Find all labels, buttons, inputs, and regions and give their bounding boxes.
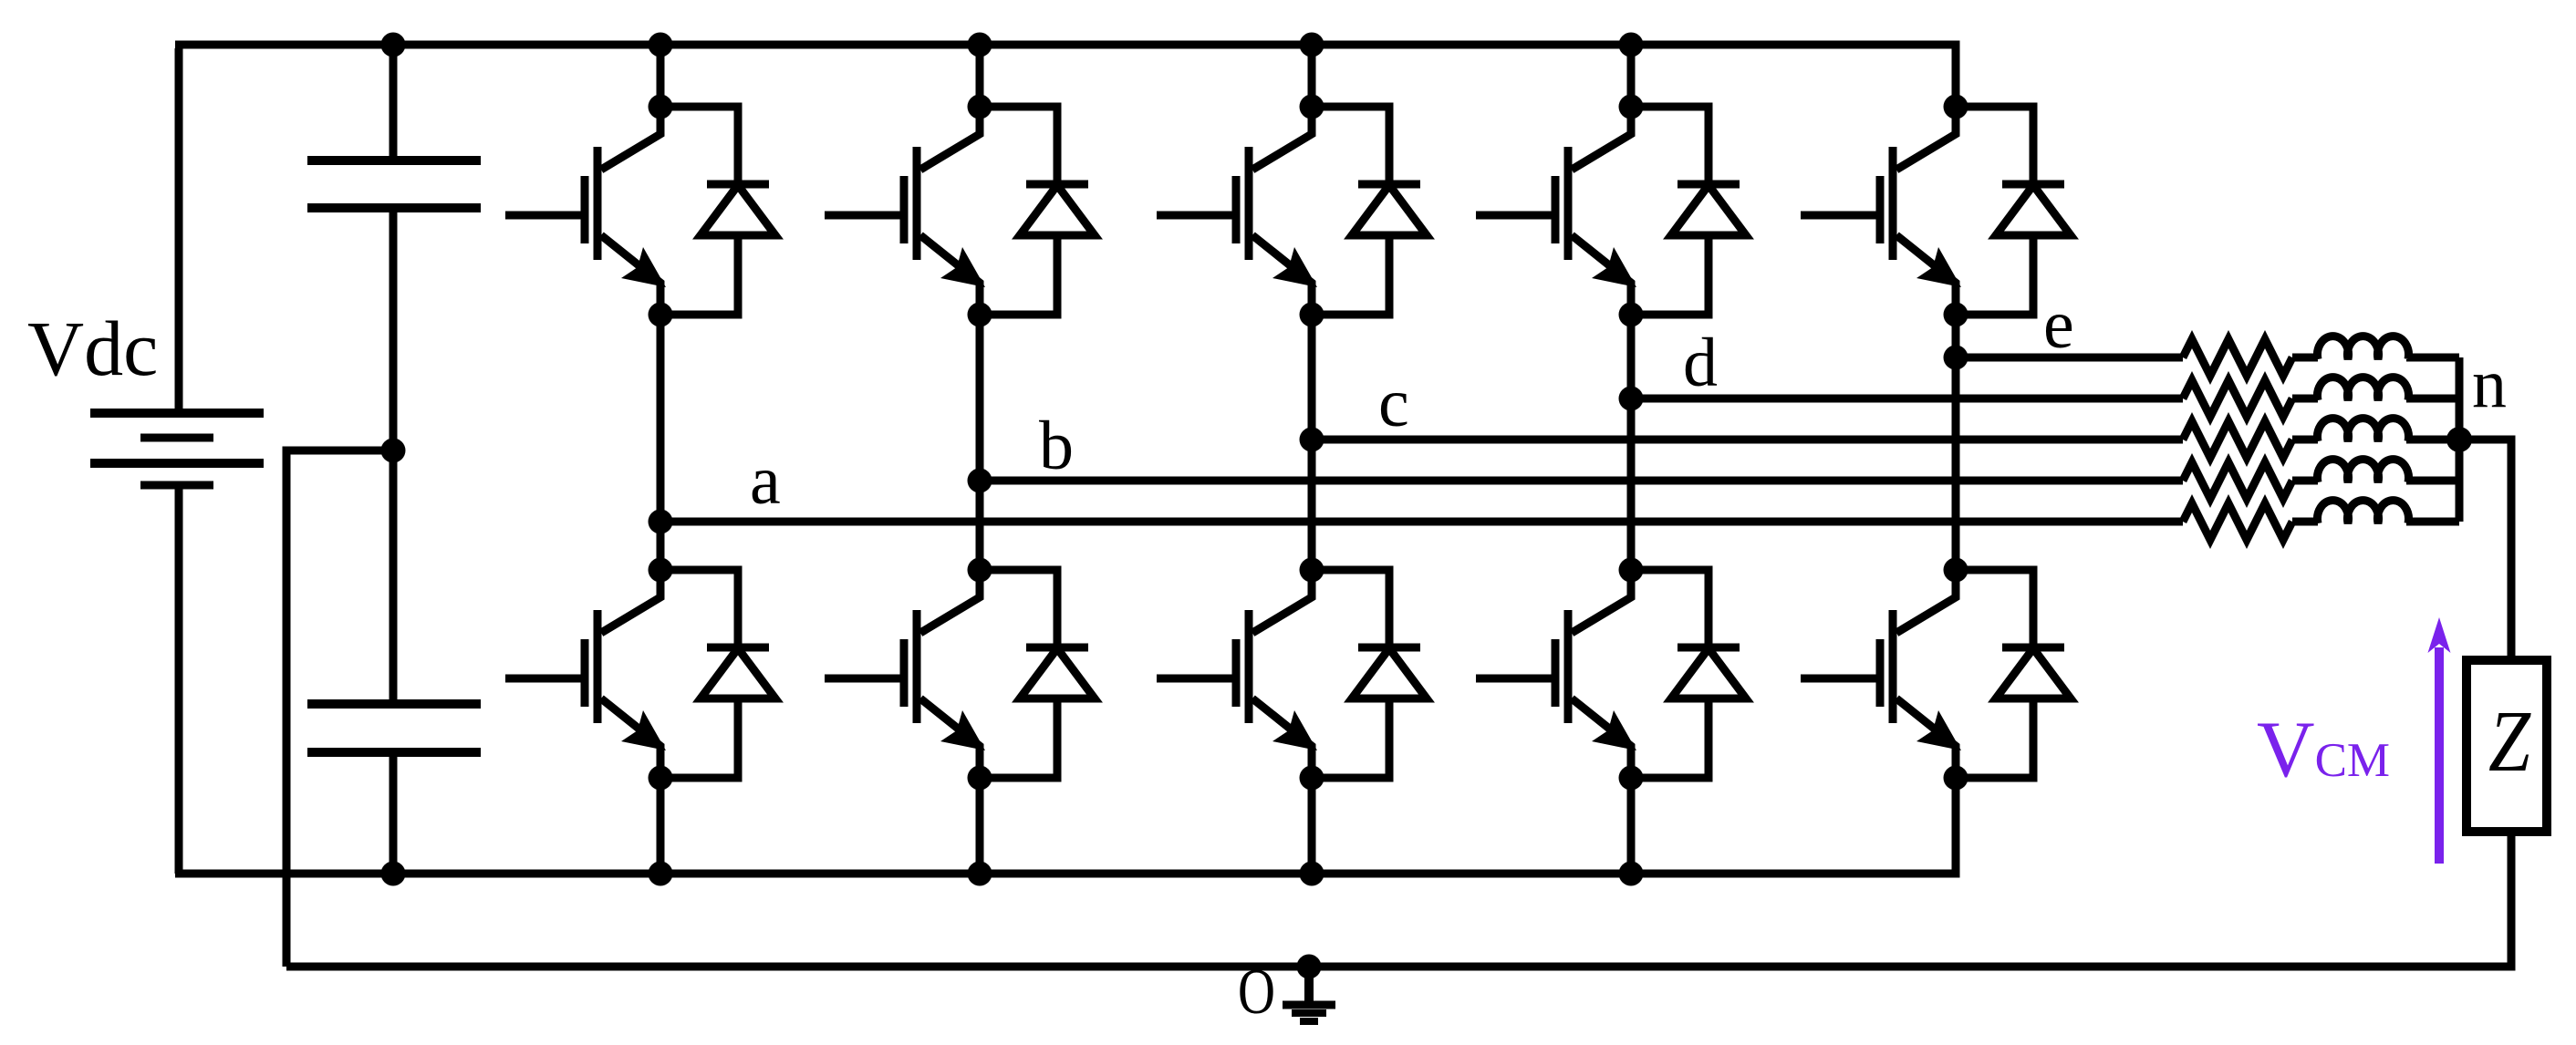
inductor Lb <box>2292 460 2459 482</box>
ground symbol <box>1283 967 1335 1021</box>
IGBT S10 (lower switch, leg e) <box>1801 570 1961 778</box>
junction top rail leg d <box>1619 33 1644 57</box>
node a (phase tap) <box>649 510 673 534</box>
IGBT S5 (upper switch, leg e) <box>1801 107 1961 315</box>
wire C1 to midpoint <box>390 208 398 704</box>
wire top rail to upper switch (leg d) <box>1627 45 1636 107</box>
junction lower switch bottom (leg d) <box>1619 766 1644 791</box>
wire phase b to load <box>980 477 2183 485</box>
free-wheeling diode D10 (lower, leg e) <box>1956 570 2071 778</box>
wire Z to ground bus <box>286 828 2511 967</box>
junction lower switch top (leg c) <box>1300 558 1324 583</box>
IGBT S9 (lower switch, leg d) <box>1476 570 1636 778</box>
free-wheeling diode D4 (upper, leg d) <box>1631 107 1746 315</box>
svg-text:b: b <box>1039 408 1074 484</box>
free-wheeling diode D3 (upper, leg c) <box>1312 107 1427 315</box>
junction upper switch bottom (leg c) <box>1300 303 1324 327</box>
svg-text:e: e <box>2043 286 2074 363</box>
node O (grounded midpoint) <box>1297 955 1322 979</box>
wire phase a to load <box>660 518 2183 526</box>
resistor Rb <box>2183 462 2292 499</box>
wire top rail to upper switch (leg b) <box>976 45 984 107</box>
top DC rail <box>175 45 1956 107</box>
svg-text:Vdc: Vdc <box>27 305 158 392</box>
free-wheeling diode D7 (lower, leg b) <box>980 570 1095 778</box>
wire leg a midpoint <box>657 315 665 570</box>
IGBT S3 (upper switch, leg c) <box>1157 107 1317 315</box>
free-wheeling diode D1 (upper, leg a) <box>660 107 775 315</box>
IGBT S1 (upper switch, leg a) <box>505 107 666 315</box>
junction upper switch bottom (leg e) <box>1944 303 1968 327</box>
junction lower switch top (leg a) <box>649 558 673 583</box>
IGBT S2 (upper switch, leg b) <box>825 107 985 315</box>
svg-text:VCM: VCM <box>2257 706 2390 794</box>
junction top rail / capacitor branch <box>381 33 406 57</box>
junction lower switch bottom (leg b) <box>968 766 992 791</box>
node M (DC-link midpoint) <box>381 439 406 463</box>
wire lower switch to bottom rail (leg d) <box>1627 778 1636 874</box>
free-wheeling diode D9 (lower, leg d) <box>1631 570 1746 778</box>
junction bottom rail leg d <box>1619 862 1644 886</box>
junction bottom rail / capacitor branch <box>381 862 406 886</box>
wire n to impedance Z <box>2459 440 2511 664</box>
junction upper switch top (leg a) <box>649 95 673 119</box>
junction lower switch bottom (leg a) <box>649 766 673 791</box>
junction upper switch top (leg e) <box>1944 95 1968 119</box>
node n (load neutral) <box>2446 427 2472 452</box>
svg-text:O: O <box>1238 957 1275 1028</box>
wire C2 to bottom rail <box>390 752 398 874</box>
wire phase c to load <box>1312 436 2183 444</box>
capacitor C2 <box>307 704 481 752</box>
junction lower switch bottom (leg c) <box>1300 766 1324 791</box>
junction upper switch bottom (leg d) <box>1619 303 1644 327</box>
IGBT S4 (upper switch, leg d) <box>1476 107 1636 315</box>
battery Vdc positive wire <box>175 48 183 413</box>
resistor Ra <box>2183 503 2292 540</box>
wire lower switch to bottom rail (leg b) <box>976 778 984 874</box>
node b (phase tap) <box>968 469 992 493</box>
battery Vdc <box>90 413 264 485</box>
free-wheeling diode D8 (lower, leg c) <box>1312 570 1427 778</box>
junction top rail leg c <box>1300 33 1324 57</box>
IGBT S8 (lower switch, leg c) <box>1157 570 1317 778</box>
wire lower switch to bottom rail (leg c) <box>1308 778 1316 874</box>
free-wheeling diode D6 (lower, leg a) <box>660 570 775 778</box>
wire phase e to load <box>1956 354 2183 362</box>
wire top rail to upper switch (leg c) <box>1308 45 1316 107</box>
resistor Rd <box>2183 380 2292 417</box>
resistor Rc <box>2183 421 2292 458</box>
wire phase d to load <box>1631 395 2183 403</box>
wire top rail to C1 <box>390 45 398 160</box>
wire leg d midpoint <box>1627 315 1636 570</box>
inductor Ld <box>2292 378 2459 400</box>
IGBT S6 (lower switch, leg a) <box>505 570 666 778</box>
junction lower switch bottom (leg e) <box>1944 766 1968 791</box>
junction bottom rail leg a <box>649 862 673 886</box>
arrow Vcm (common-mode voltage) <box>2428 617 2451 864</box>
svg-text:n: n <box>2472 346 2507 422</box>
impedance Z <box>2467 660 2547 832</box>
junction lower switch top (leg b) <box>968 558 992 583</box>
bottom DC rail <box>175 778 1956 874</box>
junction lower switch top (leg e) <box>1944 558 1968 583</box>
junction lower switch top (leg d) <box>1619 558 1644 583</box>
inductor La <box>2292 501 2459 523</box>
junction top rail leg b <box>968 33 992 57</box>
wire midpoint to ground bus <box>286 450 393 967</box>
wire leg e midpoint <box>1952 315 1960 570</box>
svg-text:d: d <box>1683 325 1718 401</box>
junction bottom rail leg b <box>968 862 992 886</box>
junction upper switch top (leg c) <box>1300 95 1324 119</box>
wire leg b midpoint <box>976 315 984 570</box>
battery negative wire <box>175 485 183 874</box>
junction upper switch bottom (leg b) <box>968 303 992 327</box>
load star bus <box>2456 357 2464 522</box>
junction upper switch bottom (leg a) <box>649 303 673 327</box>
junction upper switch top (leg b) <box>968 95 992 119</box>
free-wheeling diode D2 (upper, leg b) <box>980 107 1095 315</box>
node d (phase tap) <box>1619 387 1644 411</box>
free-wheeling diode D5 (upper, leg e) <box>1956 107 2071 315</box>
node e (phase tap) <box>1944 346 1968 370</box>
wire lower switch to bottom rail (leg a) <box>657 778 665 874</box>
wire top rail to upper switch (leg a) <box>657 45 665 107</box>
inductor Lc <box>2292 419 2459 441</box>
svg-text:a: a <box>750 442 781 519</box>
resistor Re <box>2183 339 2292 376</box>
IGBT S7 (lower switch, leg b) <box>825 570 985 778</box>
junction upper switch top (leg d) <box>1619 95 1644 119</box>
junction top rail leg a <box>649 33 673 57</box>
inductor Le <box>2292 336 2459 359</box>
junction bottom rail leg c <box>1300 862 1324 886</box>
node c (phase tap) <box>1300 428 1324 452</box>
capacitor C1 <box>307 160 481 208</box>
svg-text:c: c <box>1378 365 1409 441</box>
wire leg c midpoint <box>1308 315 1316 570</box>
svg-text:Z: Z <box>2488 692 2531 790</box>
